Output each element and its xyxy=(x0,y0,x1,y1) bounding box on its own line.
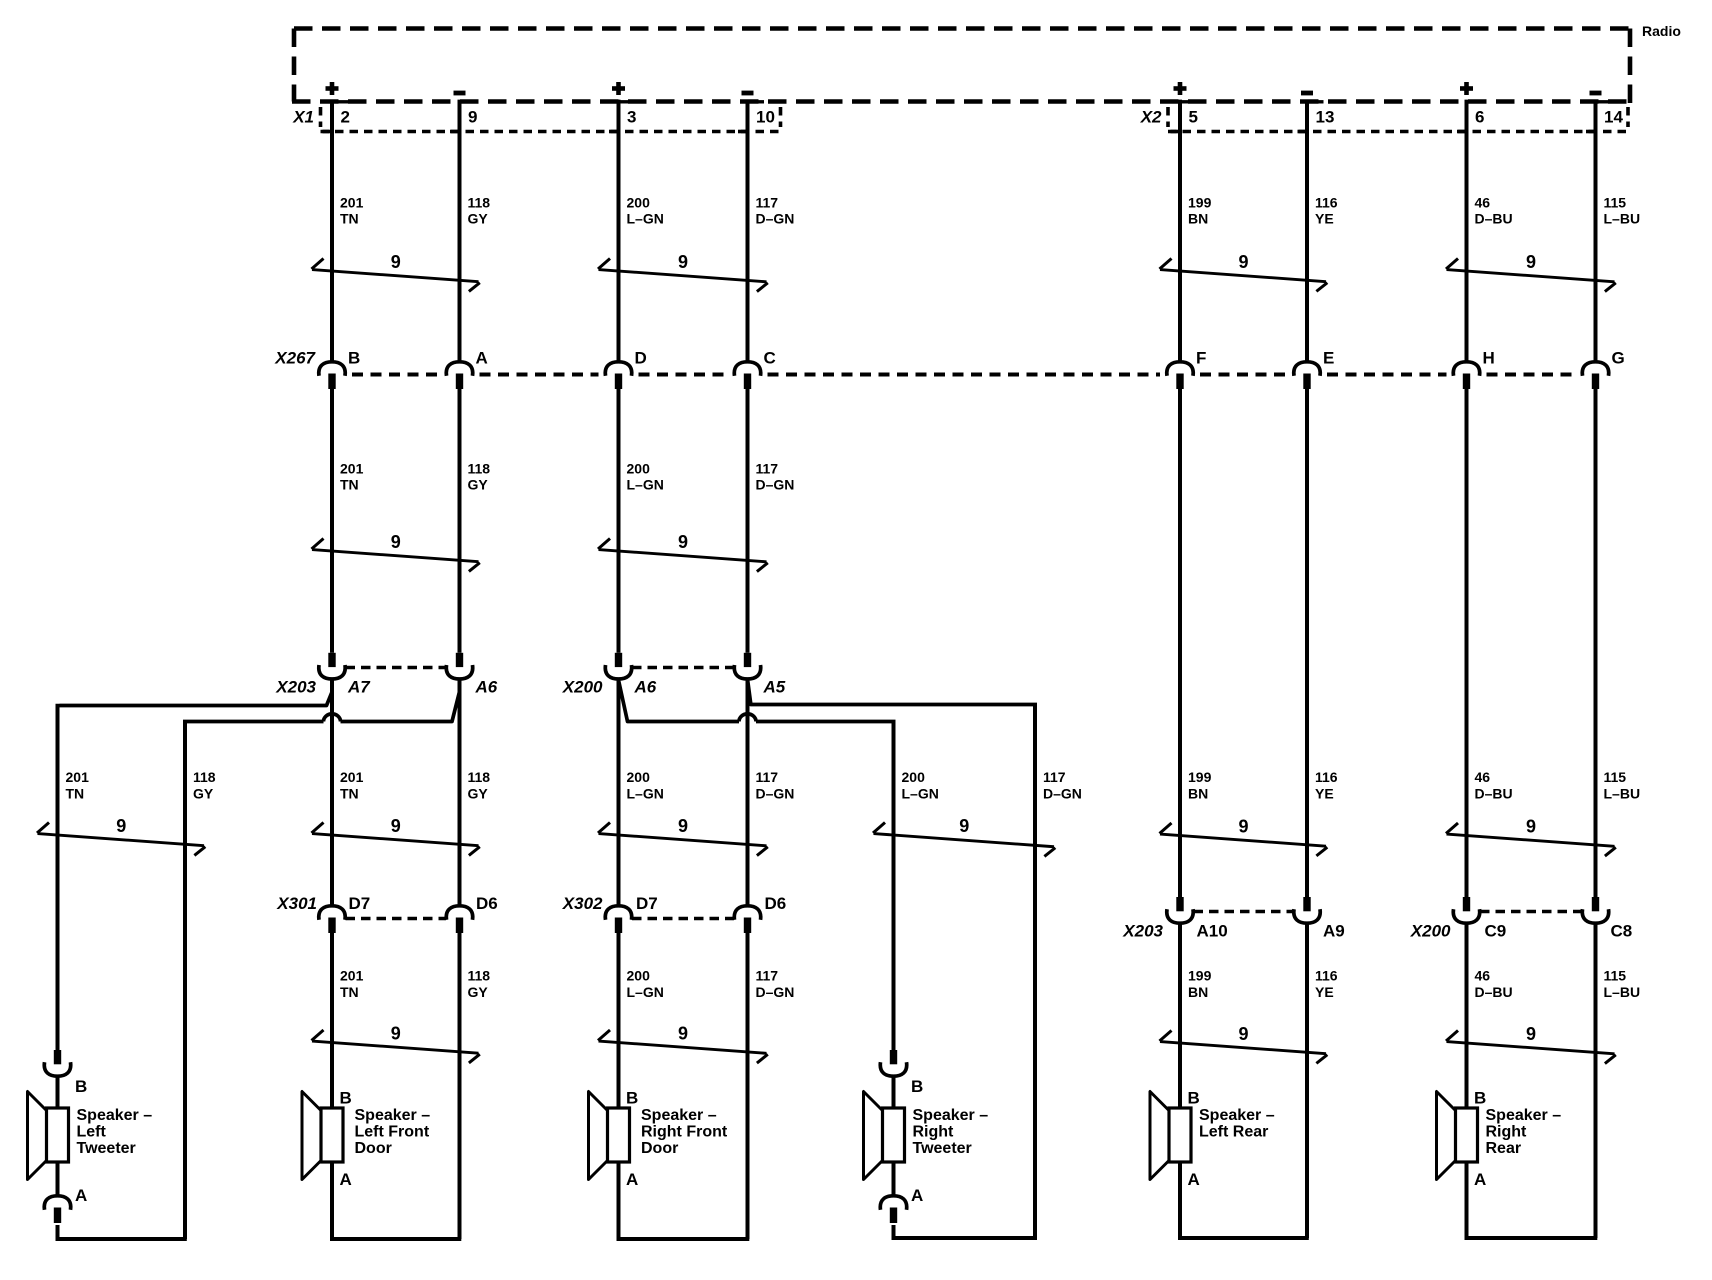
connector X301 label xyxy=(276,894,317,913)
svg-text:A9: A9 xyxy=(1323,922,1345,941)
wire 201 TN (split to X301/X302) xyxy=(330,679,334,906)
connector X267 terminal G xyxy=(1582,362,1608,389)
svg-text:Speaker –: Speaker – xyxy=(641,1107,717,1124)
svg-text:D–GN: D–GN xyxy=(1043,786,1082,802)
svg-text:A10: A10 xyxy=(1197,922,1228,941)
svg-text:X1: X1 xyxy=(292,108,314,127)
svg-text:B: B xyxy=(1474,1089,1486,1108)
wire label 116 YE (third run) xyxy=(1315,769,1338,802)
speaker Right Tweeter terminal B connector xyxy=(880,1050,906,1108)
svg-text:116: 116 xyxy=(1315,968,1338,984)
wire 117 D-GN (split to X301/X302) xyxy=(746,679,750,906)
svg-text:9: 9 xyxy=(391,1024,401,1044)
connector X302 terminal D7 xyxy=(605,906,631,933)
svg-text:B: B xyxy=(626,1089,638,1108)
svg-text:118: 118 xyxy=(468,195,491,211)
wire 201 TN (X301 to left door speaker +) xyxy=(330,933,334,1108)
svg-text:199: 199 xyxy=(1188,968,1212,984)
wire 115 L-BU (radio pin to X267) xyxy=(1594,100,1598,362)
wire label 200 L–GN (third run) xyxy=(902,769,939,802)
svg-text:BN: BN xyxy=(1188,984,1208,1000)
pin 10 label xyxy=(756,108,775,127)
svg-text:TN: TN xyxy=(340,211,359,227)
wire label 201 TN (second run) xyxy=(340,461,364,493)
svg-text:L–BU: L–BU xyxy=(1604,786,1641,802)
svg-text:9: 9 xyxy=(1238,252,1248,272)
twisted-pair marker 9 (front right pair, third) xyxy=(598,816,768,856)
pin 3 label xyxy=(627,108,636,127)
terminal D6 label xyxy=(765,894,787,913)
svg-text:D–GN: D–GN xyxy=(756,211,795,227)
wire label 115 L–BU (third run) xyxy=(1604,769,1641,802)
svg-text:Door: Door xyxy=(641,1140,678,1157)
connector X2 (dotted strip outline) xyxy=(1168,107,1628,132)
terminal E label xyxy=(1323,349,1334,368)
svg-text:B: B xyxy=(75,1077,87,1096)
svg-text:GY: GY xyxy=(468,786,489,802)
svg-text:X200: X200 xyxy=(562,678,603,697)
connector X267 terminal D xyxy=(605,362,631,389)
wire left rear return loop xyxy=(1178,1236,1309,1240)
svg-text:14: 14 xyxy=(1604,108,1623,127)
svg-text:115: 115 xyxy=(1604,195,1627,211)
pin 14 bracket ticks xyxy=(1586,102,1612,132)
speaker Left Tweeter label xyxy=(77,1107,153,1157)
svg-text:A: A xyxy=(340,1170,352,1189)
wire 118 GY (radio pin to X267) xyxy=(458,100,462,362)
wire label 115 L–BU (upper run) xyxy=(1604,195,1641,227)
twisted-pair marker 9 (front left pair, third) xyxy=(312,816,480,855)
connector X200 terminal A5 xyxy=(734,653,760,679)
svg-text:9: 9 xyxy=(1526,817,1536,837)
terminal A6 label xyxy=(475,678,498,697)
svg-text:D–GN: D–GN xyxy=(756,984,795,1000)
wire 199 BN (X267 to rear connector) xyxy=(1178,389,1182,897)
pin 14 label xyxy=(1604,108,1623,127)
speaker Right Front Door label xyxy=(641,1107,728,1157)
twisted-pair marker 9 (right rear pair, lower) xyxy=(1446,817,1616,857)
svg-text:H: H xyxy=(1483,349,1495,368)
connector X302 label xyxy=(562,894,603,913)
speaker Left Tweeter terminal A connector xyxy=(44,1196,70,1239)
svg-text:E: E xyxy=(1323,349,1334,368)
speaker Left Front Door (driver symbol) xyxy=(302,1092,343,1180)
speaker Left Tweeter wire to terminal A xyxy=(56,1162,60,1196)
wire label 116 YE (fourth run) xyxy=(1315,968,1338,1001)
svg-text:X2: X2 xyxy=(1140,108,1162,127)
wire 118 GY (X267 to X203/X200 split) xyxy=(458,389,462,653)
svg-text:5: 5 xyxy=(1189,108,1198,127)
svg-text:F: F xyxy=(1196,349,1206,368)
svg-text:X301: X301 xyxy=(276,894,317,913)
svg-text:D6: D6 xyxy=(765,894,787,913)
svg-text:L–GN: L–GN xyxy=(627,477,664,493)
wire label 199 BN (fourth run) xyxy=(1188,968,1212,1001)
wire label 118 GY (second run) xyxy=(468,461,491,493)
speaker Right Front Door wire to loop xyxy=(617,1162,621,1240)
connector X200 terminal A6 xyxy=(605,653,631,679)
terminal B label xyxy=(348,349,360,368)
wire label 200 L–GN (third run) xyxy=(627,769,664,802)
speaker Left Rear (driver symbol) xyxy=(1150,1092,1191,1180)
svg-text:L–GN: L–GN xyxy=(627,211,664,227)
pin 3 bracket ticks xyxy=(609,102,635,132)
pin 5 label xyxy=(1189,108,1198,127)
svg-text:117: 117 xyxy=(756,769,779,785)
wire 200 L-GN (X302 to right door speaker +) xyxy=(617,933,621,1108)
svg-text:9: 9 xyxy=(116,816,126,836)
connector X203 rear label xyxy=(1122,922,1163,941)
svg-text:Speaker –: Speaker – xyxy=(355,1107,431,1124)
wire 117 D-GN branch (X200-A5 to right tweeter -) xyxy=(748,681,1037,1238)
terminal A label (Right Tweeter) xyxy=(911,1186,923,1205)
svg-text:117: 117 xyxy=(1043,769,1066,785)
svg-text:L–GN: L–GN xyxy=(627,984,664,1000)
svg-text:GY: GY xyxy=(468,984,489,1000)
svg-text:TN: TN xyxy=(340,786,359,802)
speaker Right Tweeter label xyxy=(913,1107,989,1157)
pin 9 bracket ticks xyxy=(450,102,476,132)
svg-text:9: 9 xyxy=(1526,1024,1536,1044)
svg-text:115: 115 xyxy=(1604,769,1627,785)
svg-text:D–BU: D–BU xyxy=(1475,211,1513,227)
svg-text:X267: X267 xyxy=(274,349,316,368)
svg-text:9: 9 xyxy=(678,252,688,272)
twisted-pair marker 9 (right rear pair, lowest) xyxy=(1446,1024,1616,1064)
svg-text:Left Rear: Left Rear xyxy=(1199,1124,1268,1141)
svg-text:YE: YE xyxy=(1315,786,1334,802)
wire 118 GY (split to X301/X302) xyxy=(458,679,462,906)
terminal A label (Left Tweeter) xyxy=(75,1186,87,1205)
terminal H label xyxy=(1483,349,1495,368)
wire label 115 L–BU (fourth run) xyxy=(1604,968,1641,1001)
connector X267 terminal A xyxy=(446,362,472,389)
svg-text:Right: Right xyxy=(1486,1124,1528,1141)
svg-text:9: 9 xyxy=(391,816,401,836)
wire right tweeter return loop xyxy=(892,1236,1038,1240)
twisted-pair marker 9 (right rear pair, upper) xyxy=(1446,252,1616,292)
svg-text:200: 200 xyxy=(627,769,651,785)
svg-text:Speaker –: Speaker – xyxy=(1199,1107,1275,1124)
terminal A9 label xyxy=(1323,922,1345,941)
radio - terminal above pin 13 xyxy=(1301,91,1313,96)
connector X203 terminal A9 xyxy=(1294,897,1320,923)
svg-text:D–BU: D–BU xyxy=(1475,984,1513,1000)
svg-text:201: 201 xyxy=(340,195,364,211)
speaker Right Rear label xyxy=(1486,1107,1562,1157)
wire 116 YE (X203 to left rear loop) xyxy=(1305,923,1309,1238)
speaker Right Rear (driver symbol) xyxy=(1437,1092,1478,1180)
svg-text:L–BU: L–BU xyxy=(1604,211,1641,227)
terminal A label (Right Front Door) xyxy=(626,1170,638,1189)
terminal A5 label xyxy=(763,678,786,697)
svg-text:9: 9 xyxy=(678,532,688,552)
svg-text:YE: YE xyxy=(1315,984,1334,1000)
svg-text:200: 200 xyxy=(627,195,651,211)
speaker Left Front Door label xyxy=(355,1107,431,1157)
speaker Left Tweeter (driver symbol) xyxy=(28,1092,69,1180)
svg-text:TN: TN xyxy=(340,477,359,493)
wire 46 D-BU (X267 to rear connector) xyxy=(1465,389,1469,897)
svg-text:200: 200 xyxy=(902,769,926,785)
svg-text:A5: A5 xyxy=(763,678,786,697)
svg-text:2: 2 xyxy=(341,108,350,127)
radio + terminal above pin 6 xyxy=(1460,82,1473,95)
wire label 116 YE (upper run) xyxy=(1315,195,1338,227)
terminal B label (Right Tweeter) xyxy=(911,1077,923,1096)
wire left door return loop xyxy=(330,1237,461,1241)
wire label 200 L–GN (upper run) xyxy=(627,195,664,227)
wire right rear return loop xyxy=(1465,1236,1598,1240)
terminal C9 label xyxy=(1485,922,1507,941)
svg-text:199: 199 xyxy=(1188,769,1212,785)
wire label 200 L–GN (fourth run) xyxy=(627,968,664,1001)
svg-text:116: 116 xyxy=(1315,195,1338,211)
connector X302 (dashed pair link) xyxy=(632,917,734,921)
wire 118 GY (X301 to left door loop) xyxy=(458,933,462,1239)
pin 6 label xyxy=(1475,108,1484,127)
svg-text:A: A xyxy=(626,1170,638,1189)
speaker Right Front Door (driver symbol) xyxy=(589,1092,630,1180)
pin 2 bracket ticks xyxy=(323,102,349,132)
wire label 118 GY (third run) xyxy=(193,769,216,802)
wire left tweeter return loop xyxy=(56,1237,187,1241)
pin 9 label xyxy=(468,108,477,127)
wire 200 L-GN branch (X200-A6 to right tweeter +) xyxy=(619,681,896,1050)
svg-text:201: 201 xyxy=(340,968,364,984)
connector X302 terminal D6 xyxy=(734,906,760,933)
connector X200 (tweeter split, dashed pair link) xyxy=(632,666,734,670)
twisted-pair marker 9 (front right pair, upper) xyxy=(598,252,768,292)
speaker Right Tweeter terminal A connector xyxy=(880,1196,906,1239)
wire right door return loop xyxy=(617,1237,750,1241)
svg-text:Rear: Rear xyxy=(1486,1140,1522,1157)
svg-text:TN: TN xyxy=(340,984,359,1000)
svg-text:115: 115 xyxy=(1604,968,1627,984)
terminal A label (Left Rear) xyxy=(1188,1170,1200,1189)
svg-text:9: 9 xyxy=(391,252,401,272)
svg-text:C9: C9 xyxy=(1485,922,1507,941)
svg-text:A: A xyxy=(911,1186,923,1205)
pin 10 bracket ticks xyxy=(738,102,764,132)
connector X267 label xyxy=(274,349,316,368)
wire 200 L-GN (radio pin to X267) xyxy=(617,100,621,362)
wire label 201 TN (upper run) xyxy=(340,195,364,227)
radio + terminal above pin 5 xyxy=(1174,82,1187,95)
wire label 118 GY (third run) xyxy=(468,769,491,802)
svg-text:YE: YE xyxy=(1315,211,1334,227)
radio label xyxy=(1642,23,1681,39)
terminal C8 label xyxy=(1611,922,1633,941)
svg-text:D7: D7 xyxy=(636,894,658,913)
twisted-pair marker 9 (left rear pair, upper) xyxy=(1160,252,1328,291)
svg-text:B: B xyxy=(911,1077,923,1096)
svg-text:13: 13 xyxy=(1316,108,1335,127)
svg-text:A: A xyxy=(476,349,488,368)
speaker Left Rear label xyxy=(1199,1107,1275,1141)
terminal A label (Right Rear) xyxy=(1474,1170,1486,1189)
svg-text:A6: A6 xyxy=(634,678,657,697)
svg-text:Speaker –: Speaker – xyxy=(1486,1107,1562,1124)
wire 199 BN (X203 to left rear speaker +) xyxy=(1178,923,1182,1108)
terminal B label (Left Tweeter) xyxy=(75,1077,87,1096)
connector X203 terminal A7 xyxy=(319,653,345,679)
wire 116 YE (radio pin to X267) xyxy=(1305,100,1309,362)
radio - terminal above pin 10 xyxy=(742,91,754,96)
wire 200 L-GN (split to X301/X302) xyxy=(617,679,621,906)
wire label 117 D–GN (upper run) xyxy=(756,195,795,227)
wire 199 BN (radio pin to X267) xyxy=(1178,100,1182,362)
pin 5 bracket ticks xyxy=(1171,102,1197,132)
svg-text:118: 118 xyxy=(468,968,491,984)
svg-text:Tweeter: Tweeter xyxy=(913,1140,972,1157)
wire label 46 D–BU (upper run) xyxy=(1475,195,1513,227)
wire label 201 TN (third run) xyxy=(340,769,364,802)
svg-text:118: 118 xyxy=(468,461,491,477)
wire 201 TN (X267 to X203/X200 split) xyxy=(330,389,334,653)
pin 13 label xyxy=(1316,108,1335,127)
wire 115 L-BU (X267 to rear connector) xyxy=(1594,389,1598,897)
svg-text:9: 9 xyxy=(959,816,969,836)
connector X301 terminal D6 xyxy=(446,906,472,933)
wire 201 TN (radio pin to X267) xyxy=(330,100,334,362)
svg-text:D–GN: D–GN xyxy=(756,786,795,802)
svg-text:46: 46 xyxy=(1475,195,1491,211)
svg-text:117: 117 xyxy=(756,195,779,211)
svg-text:9: 9 xyxy=(1238,817,1248,837)
connector X2 label xyxy=(1140,108,1162,127)
svg-text:L–BU: L–BU xyxy=(1604,984,1641,1000)
svg-text:Speaker –: Speaker – xyxy=(913,1107,989,1124)
connector X203 (tweeter split, dashed pair link) xyxy=(346,666,447,670)
connector X200 rear label xyxy=(1410,922,1451,941)
svg-text:TN: TN xyxy=(66,786,85,802)
svg-text:Door: Door xyxy=(355,1140,392,1157)
terminal A label (Left Front Door) xyxy=(340,1170,352,1189)
svg-text:C: C xyxy=(764,349,776,368)
svg-text:201: 201 xyxy=(340,461,364,477)
connector X203 terminal A10 xyxy=(1167,897,1193,923)
svg-text:B: B xyxy=(340,1089,352,1108)
svg-text:10: 10 xyxy=(756,108,775,127)
connector X267 terminal E xyxy=(1294,362,1320,389)
speaker Left Rear wire to loop xyxy=(1178,1162,1182,1240)
wire label 201 TN (fourth run) xyxy=(340,968,364,1001)
svg-text:9: 9 xyxy=(678,816,688,836)
radio - terminal above pin 9 xyxy=(454,91,466,96)
wire label 200 L–GN (second run) xyxy=(627,461,664,493)
wire label 46 D–BU (third run) xyxy=(1475,769,1513,802)
pin 13 bracket ticks xyxy=(1298,102,1324,132)
svg-text:201: 201 xyxy=(340,769,364,785)
speaker Left Front Door wire to loop xyxy=(330,1162,334,1240)
svg-text:B: B xyxy=(1188,1089,1200,1108)
terminal D label xyxy=(635,349,647,368)
pin 6 bracket ticks xyxy=(1457,102,1483,132)
wire label 201 TN (third run) xyxy=(66,769,90,802)
twisted-pair marker 9 (front right pair, second) xyxy=(598,532,768,572)
wire 201 TN branch (X203-A7 to left tweeter +) xyxy=(58,693,332,1051)
speaker Right Tweeter wire to terminal A xyxy=(892,1162,896,1196)
svg-text:C8: C8 xyxy=(1611,922,1633,941)
svg-text:9: 9 xyxy=(468,108,477,127)
wire 118 GY branch (X203-A6 to left tweeter -) xyxy=(183,693,459,1240)
speaker Left Tweeter terminal B connector xyxy=(44,1050,70,1108)
connector X301 (dashed pair link) xyxy=(346,917,447,921)
terminal D7 label xyxy=(636,894,658,913)
twisted-pair marker 9 (left tweeter pair) xyxy=(37,816,205,855)
svg-text:A: A xyxy=(1188,1170,1200,1189)
wire label 117 D–GN (third run) xyxy=(1043,769,1082,802)
svg-text:9: 9 xyxy=(391,532,401,552)
terminal B label (Left Front Door) xyxy=(340,1089,352,1108)
svg-text:9: 9 xyxy=(678,1024,688,1044)
wire label 117 D–GN (second run) xyxy=(756,461,795,493)
svg-text:117: 117 xyxy=(756,968,779,984)
terminal D6 label xyxy=(476,894,498,913)
wire label 118 GY (upper run) xyxy=(468,195,491,227)
wire 46 D-BU (radio pin to X267) xyxy=(1465,100,1469,362)
speaker Right Rear wire to loop xyxy=(1465,1162,1469,1240)
connector X267 terminal B xyxy=(319,362,345,389)
wire 117 D-GN (X302 to right door loop) xyxy=(746,933,750,1239)
terminal B label (Right Rear) xyxy=(1474,1089,1486,1108)
terminal F label xyxy=(1196,349,1206,368)
twisted-pair marker 9 (left rear pair, lowest) xyxy=(1160,1024,1328,1063)
svg-text:Tweeter: Tweeter xyxy=(77,1140,136,1157)
connector X301 terminal D7 xyxy=(319,906,345,933)
svg-text:6: 6 xyxy=(1475,108,1484,127)
connector X203 label xyxy=(275,678,316,697)
svg-text:GY: GY xyxy=(468,477,489,493)
connector X203 terminal A6 xyxy=(446,653,472,679)
svg-text:116: 116 xyxy=(1315,769,1338,785)
svg-text:118: 118 xyxy=(468,769,491,785)
terminal D7 label xyxy=(349,894,371,913)
twisted-pair marker 9 (left rear pair, lower) xyxy=(1160,817,1328,856)
pin 2 label xyxy=(341,108,350,127)
svg-text:A: A xyxy=(75,1186,87,1205)
terminal G label xyxy=(1612,349,1625,368)
connector X200 rear (dashed pair link) xyxy=(1480,910,1582,914)
svg-text:BN: BN xyxy=(1188,211,1208,227)
terminal C label xyxy=(764,349,776,368)
svg-text:46: 46 xyxy=(1475,769,1491,785)
speaker Right Tweeter (driver symbol) xyxy=(864,1092,905,1180)
svg-text:X203: X203 xyxy=(1122,922,1163,941)
svg-text:A6: A6 xyxy=(475,678,498,697)
svg-text:46: 46 xyxy=(1475,968,1491,984)
svg-text:199: 199 xyxy=(1188,195,1212,211)
wire 46 D-BU (X200 to right rear speaker +) xyxy=(1465,923,1469,1108)
connector X1 (dotted strip outline) xyxy=(321,107,781,132)
svg-text:Left Front: Left Front xyxy=(355,1124,430,1141)
svg-text:9: 9 xyxy=(1526,252,1536,272)
svg-text:Radio: Radio xyxy=(1642,23,1681,39)
svg-text:D–BU: D–BU xyxy=(1475,786,1513,802)
terminal B label (Left Rear) xyxy=(1188,1089,1200,1108)
svg-text:GY: GY xyxy=(468,211,489,227)
terminal A7 label xyxy=(347,678,371,697)
svg-text:201: 201 xyxy=(66,769,90,785)
terminal A10 label xyxy=(1197,922,1228,941)
connector X1 label xyxy=(292,108,314,127)
wire label 117 D–GN (fourth run) xyxy=(756,968,795,1001)
wire 115 L-BU (X200 to right rear loop) xyxy=(1594,923,1598,1238)
radio + terminal above pin 2 xyxy=(326,82,339,95)
svg-text:118: 118 xyxy=(193,769,216,785)
svg-text:Right: Right xyxy=(913,1124,955,1141)
